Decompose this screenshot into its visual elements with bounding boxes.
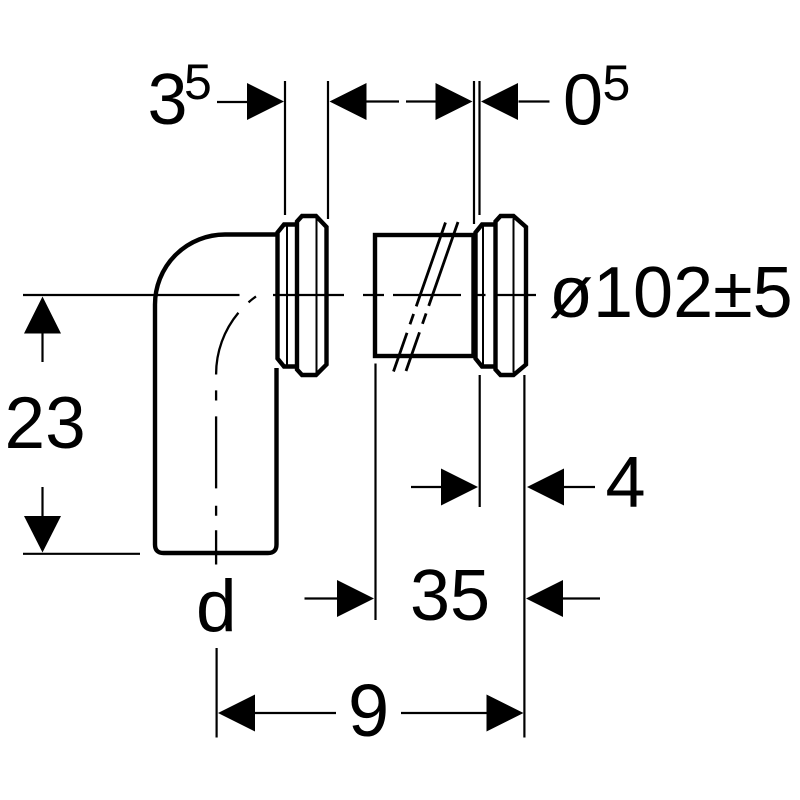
dim 0.5 arrow left at D: [481, 83, 518, 120]
right gasket ring 2 (outer collar): [496, 216, 527, 375]
dim 3.5 leader tail: [217, 101, 248, 103]
bottom extension line: [23, 553, 140, 555]
elbow body outline: [155, 235, 280, 554]
svg-text:9: 9: [348, 669, 389, 752]
dim 9 right line: [401, 712, 487, 714]
svg-text:3: 3: [148, 60, 188, 140]
dim 9 arrow left: [218, 695, 255, 732]
left gasket ring 1 (inner collar): [278, 225, 298, 367]
svg-text:35: 35: [410, 556, 490, 636]
left gasket ring 1 chamfer edge line: [286, 227, 288, 365]
mid dim arrow right at C: [436, 83, 473, 120]
sleeve break line 1: [394, 223, 446, 372]
extension line H: [216, 648, 218, 738]
dim 9 left line: [255, 712, 336, 714]
dim 23 arrow down: [24, 516, 61, 553]
dim 35 right tail: [563, 597, 600, 599]
dim 4 left tail: [411, 486, 442, 488]
svg-text:0: 0: [563, 61, 603, 141]
dim 23 upper tail: [41, 333, 43, 362]
svg-text:ø102±5: ø102±5: [549, 253, 793, 333]
extension line E: [479, 375, 481, 507]
extension line C: [473, 81, 475, 224]
extension line B: [327, 81, 329, 219]
extension line F: [523, 375, 525, 738]
dim 35 left tail: [305, 597, 339, 599]
centerline main (horizontal + bend arc + vertical, dash-dot): [23, 295, 258, 565]
centerline right section (dash-dot through sleeve and gaskets): [273, 294, 536, 296]
left gasket ring 2 (outer collar): [297, 216, 327, 375]
left gasket ring 2 chamfer edge line: [316, 219, 318, 373]
svg-text:5: 5: [184, 54, 212, 110]
svg-text:23: 23: [5, 383, 86, 464]
dim 4 arrow left: [527, 469, 564, 506]
dim 4 right tail: [564, 486, 595, 488]
extension line G: [374, 364, 376, 621]
svg-text:d: d: [196, 566, 237, 647]
dim 23 lower tail: [41, 487, 43, 517]
mid dim tail: [367, 100, 400, 102]
extension line A: [284, 81, 286, 215]
dim 35 arrow left: [526, 580, 563, 617]
dim 9 arrow right: [487, 695, 524, 732]
right gasket ring 1 (inner collar): [476, 225, 495, 367]
dim 35 arrow right: [337, 580, 374, 617]
sleeve pipe section: [375, 235, 474, 356]
mid dim broken segment: [406, 100, 437, 102]
svg-text:5: 5: [603, 55, 631, 111]
right gasket ring 1 chamfer edge line: [482, 227, 484, 365]
mid dim arrow left at B: [330, 83, 367, 120]
dim 0.5 leader tail: [519, 100, 550, 102]
dim 3.5 arrow right: [247, 83, 284, 120]
dim 23 arrow up: [24, 297, 61, 334]
right gasket ring 2 chamfer edge line: [513, 219, 515, 373]
dim 4 arrow right: [441, 469, 478, 506]
svg-text:4: 4: [606, 443, 646, 523]
sleeve break line 2: [406, 222, 458, 371]
extension line D: [478, 81, 480, 215]
